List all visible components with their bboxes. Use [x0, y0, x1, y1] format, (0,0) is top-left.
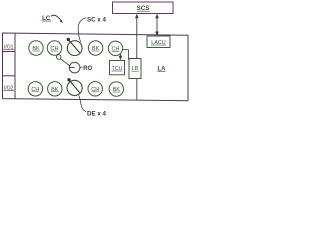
box TCU — [110, 61, 125, 75]
box I/O1 — [3, 45, 16, 52]
svg-text:RO: RO — [83, 66, 92, 72]
solenoid symbol row1 (circle with needle) — [67, 38, 82, 56]
motor RO circle — [69, 62, 80, 73]
leader wire from row2 solenoid to DE x 4 — [79, 95, 87, 112]
circle CH row2 col4 — [88, 82, 102, 96]
svg-text:DE x 4: DE x 4 — [87, 111, 106, 118]
wire pivot to RO motor — [60, 59, 70, 66]
wire SCS to LB (vertical, arrow up into SCS) — [135, 14, 139, 59]
label LC — [42, 15, 52, 22]
box I/O2 — [3, 76, 16, 92]
circle BK row2 col5 — [109, 82, 123, 96]
circle CH row2 col1 — [28, 82, 42, 96]
circle CH row1 col5 — [108, 41, 122, 55]
circle CH row1 col2 — [47, 41, 61, 55]
small pivot circle under CH row1 col2 — [56, 55, 61, 60]
box LB — [129, 59, 141, 79]
label SC x 4 — [87, 17, 106, 24]
leader wire from SC x 4 to top solenoid — [78, 18, 86, 42]
wire LB to cabinet bottom — [136, 79, 138, 101]
circle BK row2 col2 — [48, 82, 62, 96]
wire CH row1 col5 to LB — [123, 50, 129, 60]
wire SCS to LACU (vertical, arrows both ends) — [155, 14, 159, 37]
circle BK row1 col4 — [88, 41, 102, 55]
solenoid symbol row2 (circle with needle) — [67, 78, 82, 95]
label LA — [158, 67, 167, 73]
arrow from LC label — [51, 15, 63, 23]
outer cabinet box — [3, 33, 189, 101]
label RO with squiggle leader — [80, 66, 93, 72]
box LACU — [147, 36, 170, 48]
svg-text:SC x 4: SC x 4 — [87, 17, 106, 24]
divider line of I/O column — [14, 33, 16, 99]
arrow into TCU from CH — [119, 54, 123, 60]
box SCS (system control) — [113, 2, 174, 14]
circle BK row1 col1 — [29, 41, 43, 55]
